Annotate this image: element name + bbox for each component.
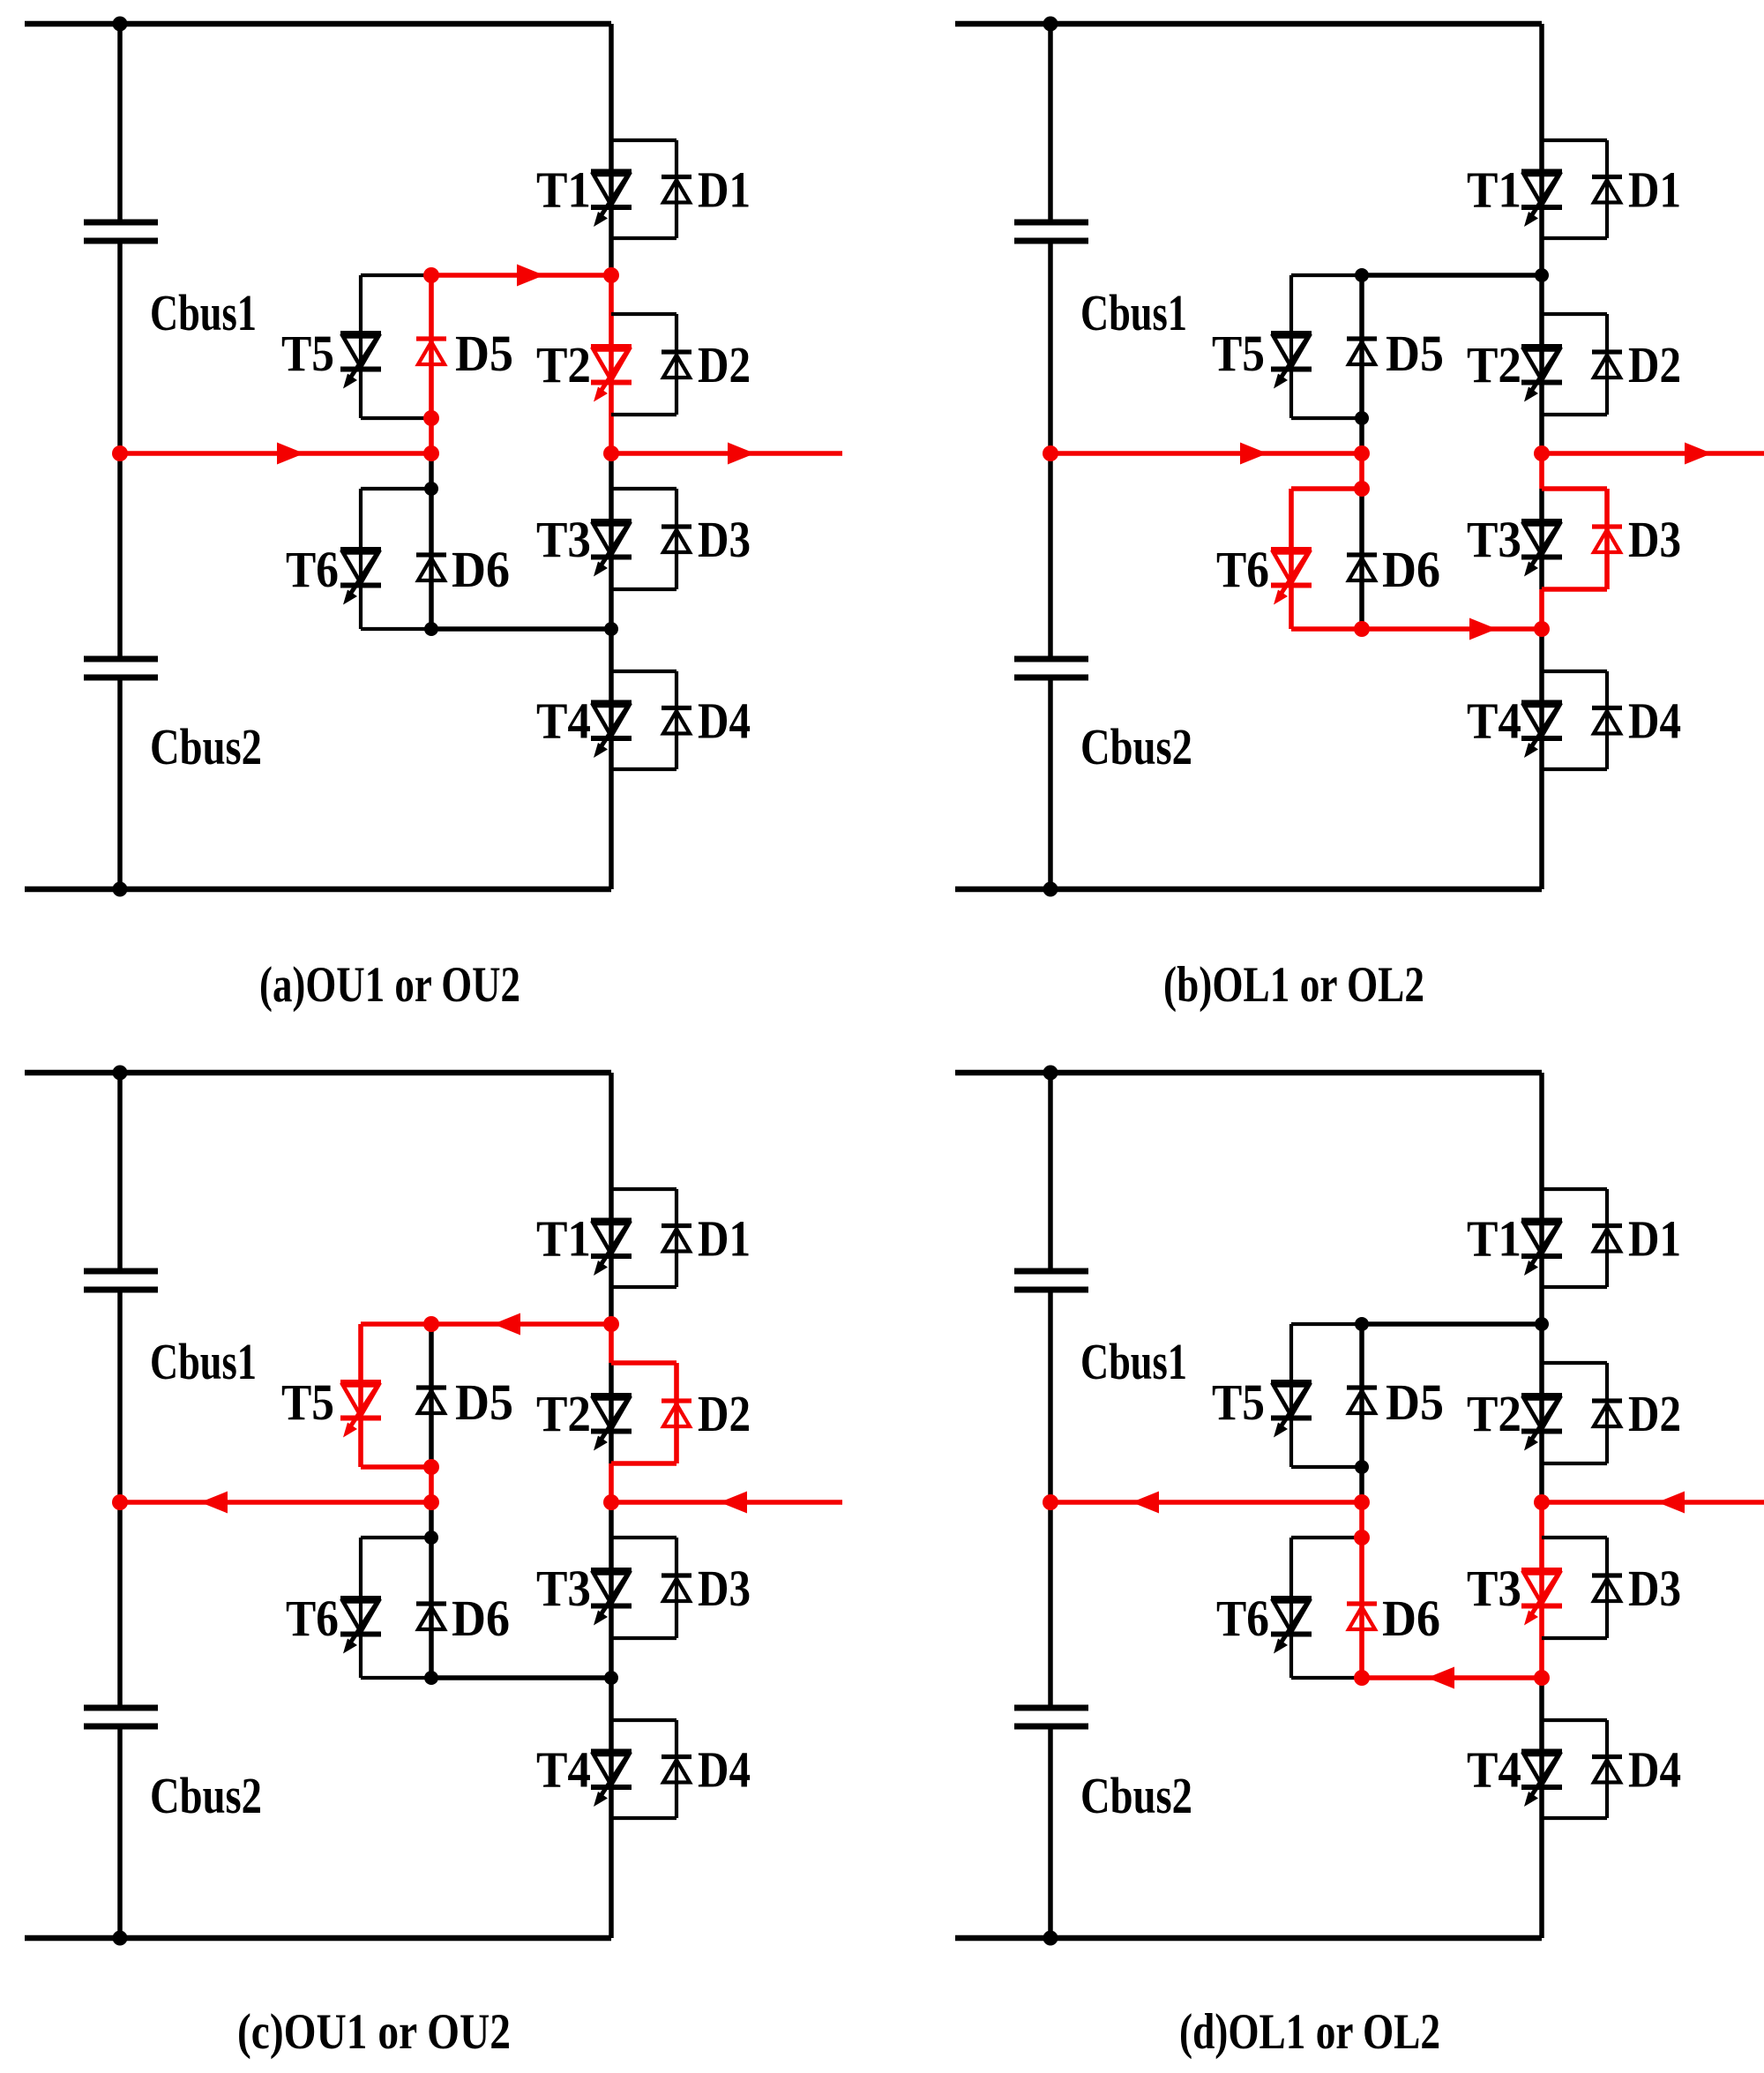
node top rail / bus junction (c) xyxy=(113,1066,128,1081)
wire bottom DC rail (b) xyxy=(955,887,1542,893)
node clamp black junction 1 (c) xyxy=(424,1530,438,1545)
wire T2/D2 parallel loop (b) xyxy=(1542,314,1607,415)
svg-text:Cbus1: Cbus1 xyxy=(1080,1333,1187,1390)
transistor T3 (d) xyxy=(1521,1570,1562,1626)
wire T3/D3 parallel loop (a) xyxy=(611,489,676,589)
svg-text:T2: T2 xyxy=(536,336,591,393)
svg-text:T5: T5 xyxy=(281,1373,334,1431)
wire T6/D6 clamp loop (b) xyxy=(1291,489,1362,629)
transistor T2 (d) xyxy=(1521,1396,1562,1451)
wire top DC rail (a) xyxy=(25,21,611,27)
svg-text:D3: D3 xyxy=(1628,511,1681,568)
wire T1/D1 parallel loop (a) xyxy=(611,140,676,238)
node clamp junction 2 (c) xyxy=(423,1459,439,1475)
wire clamp top connection (b) xyxy=(1362,273,1542,278)
diode D1 (a) xyxy=(661,177,691,203)
diode D2 (c) xyxy=(661,1401,691,1426)
current arrow 3 (a) xyxy=(728,443,755,465)
svg-text:D5: D5 xyxy=(1386,1373,1444,1431)
capacitor Cbus1 (a) xyxy=(84,222,158,241)
svg-text:T3: T3 xyxy=(1467,1560,1521,1617)
transistor T1 (a) xyxy=(591,172,632,228)
node clamp mid (c) xyxy=(423,1494,439,1510)
svg-text:D3: D3 xyxy=(1628,1560,1681,1617)
svg-text:(b)OL1 or OL2: (b)OL1 or OL2 xyxy=(1163,957,1424,1013)
svg-text:D6: D6 xyxy=(1382,541,1440,598)
transistor T3 (a) xyxy=(591,521,632,577)
svg-text:D5: D5 xyxy=(455,325,513,382)
node top rail / bus junction (a) xyxy=(113,17,128,32)
transistor T3 (c) xyxy=(591,1570,632,1626)
svg-text:T6: T6 xyxy=(1216,541,1269,598)
wire left DC bus (b) xyxy=(1048,24,1053,889)
capacitor Cbus1 (b) xyxy=(1014,222,1088,241)
svg-text:T2: T2 xyxy=(1467,336,1521,393)
transistor T2 (b) xyxy=(1521,347,1562,402)
svg-text:(d)OL1 or OL2: (d)OL1 or OL2 xyxy=(1179,2004,1440,2060)
node clamp black junction 1 (b) xyxy=(1355,268,1369,282)
capacitor Cbus2 (a) xyxy=(84,659,158,677)
transistor T2 (c) xyxy=(591,1396,632,1451)
node neutral at bus (a) xyxy=(112,445,128,461)
wire T1/D1 parallel loop (c) xyxy=(611,1189,676,1287)
node clamp mid (a) xyxy=(423,445,439,461)
wire left DC bus (d) xyxy=(1048,1073,1053,1938)
capacitor Cbus1 (c) xyxy=(84,1271,158,1290)
diode D6 (d) xyxy=(1347,1604,1377,1629)
svg-text:T3: T3 xyxy=(536,1560,591,1617)
wire top DC rail (b) xyxy=(955,21,1542,27)
diode D5 (c) xyxy=(416,1388,446,1413)
wire T5/D5 clamp loop (a) xyxy=(361,275,431,418)
capacitor Cbus1 (d) xyxy=(1014,1271,1088,1290)
wire T2/D2 parallel loop (c) xyxy=(611,1363,676,1463)
wire bottom DC rail (d) xyxy=(955,1935,1542,1942)
node clamp black junction 1 (a) xyxy=(424,482,438,496)
svg-text:T5: T5 xyxy=(1212,325,1265,382)
wire neutral point connection (a) xyxy=(120,451,431,456)
svg-text:T3: T3 xyxy=(536,511,591,568)
node clamp black junction 2 (c) xyxy=(424,1671,438,1685)
wire T1/D1 parallel loop (b) xyxy=(1542,140,1607,238)
node clamp junction 1 (a) xyxy=(423,267,439,283)
node top rail / bus junction (d) xyxy=(1043,1066,1058,1081)
node clamp junction 1 (d) xyxy=(1354,1494,1370,1510)
wire clamp top connection (c) xyxy=(431,1321,611,1327)
node output (c) xyxy=(603,1494,619,1510)
svg-text:Cbus2: Cbus2 xyxy=(1080,1767,1192,1824)
diode D1 (c) xyxy=(661,1226,691,1252)
current arrow 3 (b) xyxy=(1685,443,1712,465)
svg-text:Cbus2: Cbus2 xyxy=(1080,718,1192,775)
node bottom rail / bus junction (c) xyxy=(113,1931,128,1946)
wire T5/D5 clamp loop (d) xyxy=(1291,1324,1362,1467)
transistor T4 (b) xyxy=(1521,703,1562,759)
svg-text:T6: T6 xyxy=(1216,1590,1269,1647)
svg-text:Cbus1: Cbus1 xyxy=(150,284,257,341)
wire bottom DC rail (a) xyxy=(25,887,611,893)
node clamp black junction 1 (d) xyxy=(1355,1317,1369,1331)
diode D2 (d) xyxy=(1592,1401,1622,1426)
wire left DC bus (c) xyxy=(117,1073,123,1938)
svg-text:D6: D6 xyxy=(452,1590,510,1647)
svg-text:T1: T1 xyxy=(1467,161,1521,219)
svg-text:T2: T2 xyxy=(536,1385,591,1442)
node clamp junction 1 (c) xyxy=(423,1316,439,1332)
diode D3 (b) xyxy=(1592,527,1622,552)
wire clamp top connection (a) xyxy=(431,273,611,278)
diode D2 (b) xyxy=(1592,352,1622,378)
svg-text:T4: T4 xyxy=(1467,692,1521,750)
wire neutral point connection (c) xyxy=(120,1500,431,1505)
current arrow 3 (d) xyxy=(1657,1492,1685,1514)
wire neutral point connection (d) xyxy=(1050,1500,1362,1505)
svg-text:(c)OU1 or OU2: (c)OU1 or OU2 xyxy=(237,2004,511,2060)
transistor T4 (c) xyxy=(591,1752,632,1807)
current arrow 2 (d) xyxy=(1427,1667,1454,1689)
node clamp black junction 3 (b) xyxy=(1535,268,1549,282)
wire T6/D6 clamp loop (d) xyxy=(1291,1538,1362,1678)
wire main phase leg (b) xyxy=(1539,24,1544,889)
transistor T4 (d) xyxy=(1521,1752,1562,1807)
wire bottom DC rail (c) xyxy=(25,1935,611,1942)
svg-text:D1: D1 xyxy=(1628,161,1681,219)
wire clamp branch line (a) xyxy=(429,275,434,629)
wire T6/D6 clamp loop (c) xyxy=(361,1538,431,1678)
svg-text:Cbus1: Cbus1 xyxy=(1080,284,1187,341)
current arrow 1 (b) xyxy=(1240,443,1267,465)
wire T4/D4 parallel loop (d) xyxy=(1542,1720,1607,1818)
diode D5 (d) xyxy=(1347,1388,1377,1413)
wire clamp bottom connection (c) xyxy=(431,1675,611,1680)
transistor T6 (d) xyxy=(1271,1598,1312,1654)
diode D4 (c) xyxy=(661,1757,691,1783)
node clamp junction 2 (d) xyxy=(1354,1530,1370,1545)
node neutral at bus (b) xyxy=(1043,445,1058,461)
node bottom rail / bus junction (a) xyxy=(113,882,128,897)
node phase leg junction (a) xyxy=(603,267,619,283)
node output (d) xyxy=(1534,1494,1550,1510)
svg-text:D3: D3 xyxy=(698,1560,751,1617)
wire T4/D4 parallel loop (c) xyxy=(611,1720,676,1818)
transistor T5 (b) xyxy=(1271,333,1312,389)
svg-text:T6: T6 xyxy=(286,541,339,598)
transistor T3 (b) xyxy=(1521,521,1562,577)
current arrow 2 (b) xyxy=(1469,618,1497,640)
wire clamp bottom connection (a) xyxy=(431,626,611,632)
wire clamp branch line (d) xyxy=(1359,1324,1364,1678)
wire neutral point connection (b) xyxy=(1050,451,1362,456)
svg-text:T1: T1 xyxy=(536,1210,591,1268)
diode D2 (a) xyxy=(661,352,691,378)
wire top DC rail (d) xyxy=(955,1070,1542,1076)
svg-text:D3: D3 xyxy=(698,511,751,568)
diode D3 (c) xyxy=(661,1575,691,1601)
node phase leg junction (c) xyxy=(603,1316,619,1332)
svg-text:T5: T5 xyxy=(1212,1373,1265,1431)
transistor T5 (a) xyxy=(340,333,381,389)
transistor T1 (b) xyxy=(1521,172,1562,228)
wire T3/D3 parallel loop (b) xyxy=(1542,489,1607,589)
wire T3/D3 parallel loop (c) xyxy=(611,1538,676,1638)
diode D4 (a) xyxy=(661,708,691,734)
node neutral at bus (c) xyxy=(112,1494,128,1510)
svg-text:T5: T5 xyxy=(281,325,334,382)
diode D3 (a) xyxy=(661,527,691,552)
svg-text:D1: D1 xyxy=(1628,1210,1681,1268)
svg-text:D4: D4 xyxy=(1628,1741,1681,1799)
wire T1/D1 parallel loop (d) xyxy=(1542,1189,1607,1287)
transistor T6 (b) xyxy=(1271,550,1312,605)
svg-text:T4: T4 xyxy=(1467,1741,1521,1799)
node clamp black junction 2 (a) xyxy=(424,622,438,636)
wire main phase leg (d) xyxy=(1539,1073,1544,1938)
transistor T2 (a) xyxy=(591,347,632,402)
transistor T6 (c) xyxy=(340,1598,381,1654)
node clamp junction 2 (a) xyxy=(423,410,439,426)
wire T5/D5 clamp loop (b) xyxy=(1291,275,1362,418)
transistor T4 (a) xyxy=(591,703,632,759)
transistor T5 (c) xyxy=(340,1382,381,1438)
svg-text:T1: T1 xyxy=(1467,1210,1521,1268)
node phase leg junction (b) xyxy=(1534,621,1550,637)
wire T3/D3 parallel loop (d) xyxy=(1542,1538,1607,1638)
node clamp junction 2 (b) xyxy=(1354,481,1370,497)
svg-text:T2: T2 xyxy=(1467,1385,1521,1442)
capacitor Cbus2 (d) xyxy=(1014,1708,1088,1726)
node clamp black junction 2 (b) xyxy=(1355,411,1369,425)
diode D1 (d) xyxy=(1592,1226,1622,1252)
transistor T6 (a) xyxy=(340,550,381,605)
node output (b) xyxy=(1534,445,1550,461)
svg-text:D2: D2 xyxy=(698,336,751,393)
svg-text:D2: D2 xyxy=(1628,336,1681,393)
transistor T1 (d) xyxy=(1521,1221,1562,1276)
wire T2/D2 parallel loop (d) xyxy=(1542,1363,1607,1463)
current arrow 1 (d) xyxy=(1132,1492,1159,1514)
wire output line (c) xyxy=(611,1500,842,1505)
wire T4/D4 parallel loop (a) xyxy=(611,671,676,769)
node bottom rail / bus junction (b) xyxy=(1043,882,1058,897)
svg-text:D4: D4 xyxy=(1628,692,1681,750)
wire clamp branch line (c) xyxy=(429,1324,434,1678)
wire output line (d) xyxy=(1542,1500,1764,1505)
wire clamp branch line (b) xyxy=(1359,275,1364,629)
svg-text:Cbus2: Cbus2 xyxy=(150,1767,262,1824)
diode D4 (d) xyxy=(1592,1757,1622,1783)
node neutral at bus (d) xyxy=(1043,1494,1058,1510)
wire T2/D2 parallel loop (a) xyxy=(611,314,676,415)
current arrow 1 (c) xyxy=(200,1492,228,1514)
node phase leg junction (d) xyxy=(1534,1670,1550,1686)
diode D5 (a) xyxy=(416,339,446,364)
wire output line (a) xyxy=(611,451,842,456)
node clamp black junction 3 (a) xyxy=(604,622,618,636)
svg-text:T1: T1 xyxy=(536,161,591,219)
wire top DC rail (c) xyxy=(25,1070,611,1076)
diode D5 (b) xyxy=(1347,339,1377,364)
transistor T1 (c) xyxy=(591,1221,632,1276)
svg-text:D4: D4 xyxy=(698,692,751,750)
svg-text:Cbus1: Cbus1 xyxy=(150,1333,257,1390)
node clamp mid (b) xyxy=(1354,621,1370,637)
svg-text:D1: D1 xyxy=(698,161,751,219)
node clamp black junction 3 (c) xyxy=(604,1671,618,1685)
svg-text:T6: T6 xyxy=(286,1590,339,1647)
svg-text:D5: D5 xyxy=(1386,325,1444,382)
node clamp black junction 2 (d) xyxy=(1355,1460,1369,1474)
node clamp junction 1 (b) xyxy=(1354,445,1370,461)
diode D1 (b) xyxy=(1592,177,1622,203)
svg-text:T4: T4 xyxy=(536,692,591,750)
node clamp black junction 3 (d) xyxy=(1535,1317,1549,1331)
wire main phase leg (c) xyxy=(609,1073,614,1938)
wire T4/D4 parallel loop (b) xyxy=(1542,671,1607,769)
capacitor Cbus2 (b) xyxy=(1014,659,1088,677)
wire T6/D6 clamp loop (a) xyxy=(361,489,431,629)
svg-text:Cbus2: Cbus2 xyxy=(150,718,262,775)
current arrow 1 (a) xyxy=(277,443,304,465)
wire clamp top connection (d) xyxy=(1362,1321,1542,1327)
node top rail / bus junction (b) xyxy=(1043,17,1058,32)
diode D6 (b) xyxy=(1347,555,1377,580)
node output (a) xyxy=(603,445,619,461)
wire left DC bus (a) xyxy=(117,24,123,889)
current arrow 2 (c) xyxy=(493,1313,520,1336)
current arrow 3 (c) xyxy=(720,1492,747,1514)
current arrow 2 (a) xyxy=(517,265,544,287)
diode D6 (c) xyxy=(416,1604,446,1629)
svg-text:D6: D6 xyxy=(1382,1590,1440,1647)
svg-text:D6: D6 xyxy=(452,541,510,598)
diode D6 (a) xyxy=(416,555,446,580)
svg-text:D5: D5 xyxy=(455,1373,513,1431)
svg-text:T3: T3 xyxy=(1467,511,1521,568)
wire T5/D5 clamp loop (c) xyxy=(361,1324,431,1467)
svg-text:D4: D4 xyxy=(698,1741,751,1799)
diode D3 (d) xyxy=(1592,1575,1622,1601)
svg-text:D1: D1 xyxy=(698,1210,751,1268)
svg-text:(a)OU1 or OU2: (a)OU1 or OU2 xyxy=(259,957,520,1013)
node clamp mid (d) xyxy=(1354,1670,1370,1686)
svg-text:D2: D2 xyxy=(698,1385,751,1442)
wire clamp bottom connection (d) xyxy=(1362,1675,1542,1680)
wire clamp bottom connection (b) xyxy=(1362,626,1542,632)
node bottom rail / bus junction (d) xyxy=(1043,1931,1058,1946)
diode D4 (b) xyxy=(1592,708,1622,734)
capacitor Cbus2 (c) xyxy=(84,1708,158,1726)
transistor T5 (d) xyxy=(1271,1382,1312,1438)
svg-text:D2: D2 xyxy=(1628,1385,1681,1442)
wire output line (b) xyxy=(1542,451,1764,456)
svg-text:T4: T4 xyxy=(536,1741,591,1799)
wire main phase leg (a) xyxy=(609,24,614,889)
